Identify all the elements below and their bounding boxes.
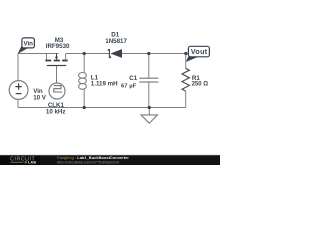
transistor M3 gate plate [47,65,66,66]
CLK1 square-wave glyph [54,86,62,92]
wire R1 branch bottom [185,91,187,107]
footer bar [0,155,220,165]
wire top segment left (Vin node to M3 source) [18,53,59,55]
node junction dot Vout corner [184,52,187,55]
clock source CLK1 circle [49,83,65,99]
transistor M3 body arrow [56,54,58,60]
transistor M3 channel bars [45,60,67,62]
svg-text:250 Ω: 250 Ω [192,82,209,88]
svg-text:1.119 mH: 1.119 mH [91,80,118,87]
svg-text:Vin: Vin [23,40,33,47]
svg-text:67 µF: 67 µF [121,84,137,90]
transistor M3 source terminal [46,54,48,60]
label CLK1 (under-rail, drawn before wires) [46,102,66,116]
wire L1 branch top [83,54,85,73]
diode D1 triangle [110,49,122,58]
wire gate lead M3 to CLK1 [56,66,58,83]
wire C1 branch top [148,54,150,79]
wire top segment mid (M3 drain to D1 cathode) [66,53,109,55]
capacitor C1 plates [139,78,158,79]
svg-text:IRF9530: IRF9530 [46,43,70,50]
resistor R1 zigzag [182,68,189,91]
node A junction dot (L1 tap, top) [83,52,86,55]
svg-text:http://circuitlab.com/c775dbfa: http://circuitlab.com/c775dbfa3d2nt [57,160,120,165]
wire left branch lower (V1 bottom to bottom rail) [17,99,19,107]
wire bottom rail [18,107,186,109]
svg-text:10 V: 10 V [33,94,47,101]
diode D1 schottky cathode bar [108,49,111,57]
V1 minus sign [16,93,22,95]
wire left branch upper (Vin node down to V1 top) [17,54,19,81]
svg-text:10 kHz: 10 kHz [46,109,66,116]
wire C1 branch bottom [148,83,150,108]
inductor L1 coil [79,73,87,90]
node junction dot C1 tap top [147,52,150,55]
flag Vout box [188,46,209,57]
footer logo second line [10,161,23,163]
wire L1 branch bottom [83,89,85,108]
svg-text:Vout: Vout [191,49,208,56]
transistor M3 drain terminal [65,54,67,60]
svg-text:1N5817: 1N5817 [105,38,127,45]
node junction dot L1 bottom [83,106,86,109]
labels (white halo) [33,32,208,102]
wire top segment right (D1 anode to Vout corner) [121,53,185,55]
svg-text:C1: C1 [129,75,137,82]
V1 plus sign [15,83,21,89]
voltage source V1 circle [9,81,28,100]
wire ground stub [148,108,150,115]
node junction dot ground tap [148,106,151,109]
wire R1 branch top [185,54,187,69]
svg-text:LAB: LAB [28,161,36,165]
ground symbol [141,115,158,123]
flag Vin pointer [18,45,28,54]
flag Vout pointer [186,55,199,62]
flag Vin box [22,38,35,48]
